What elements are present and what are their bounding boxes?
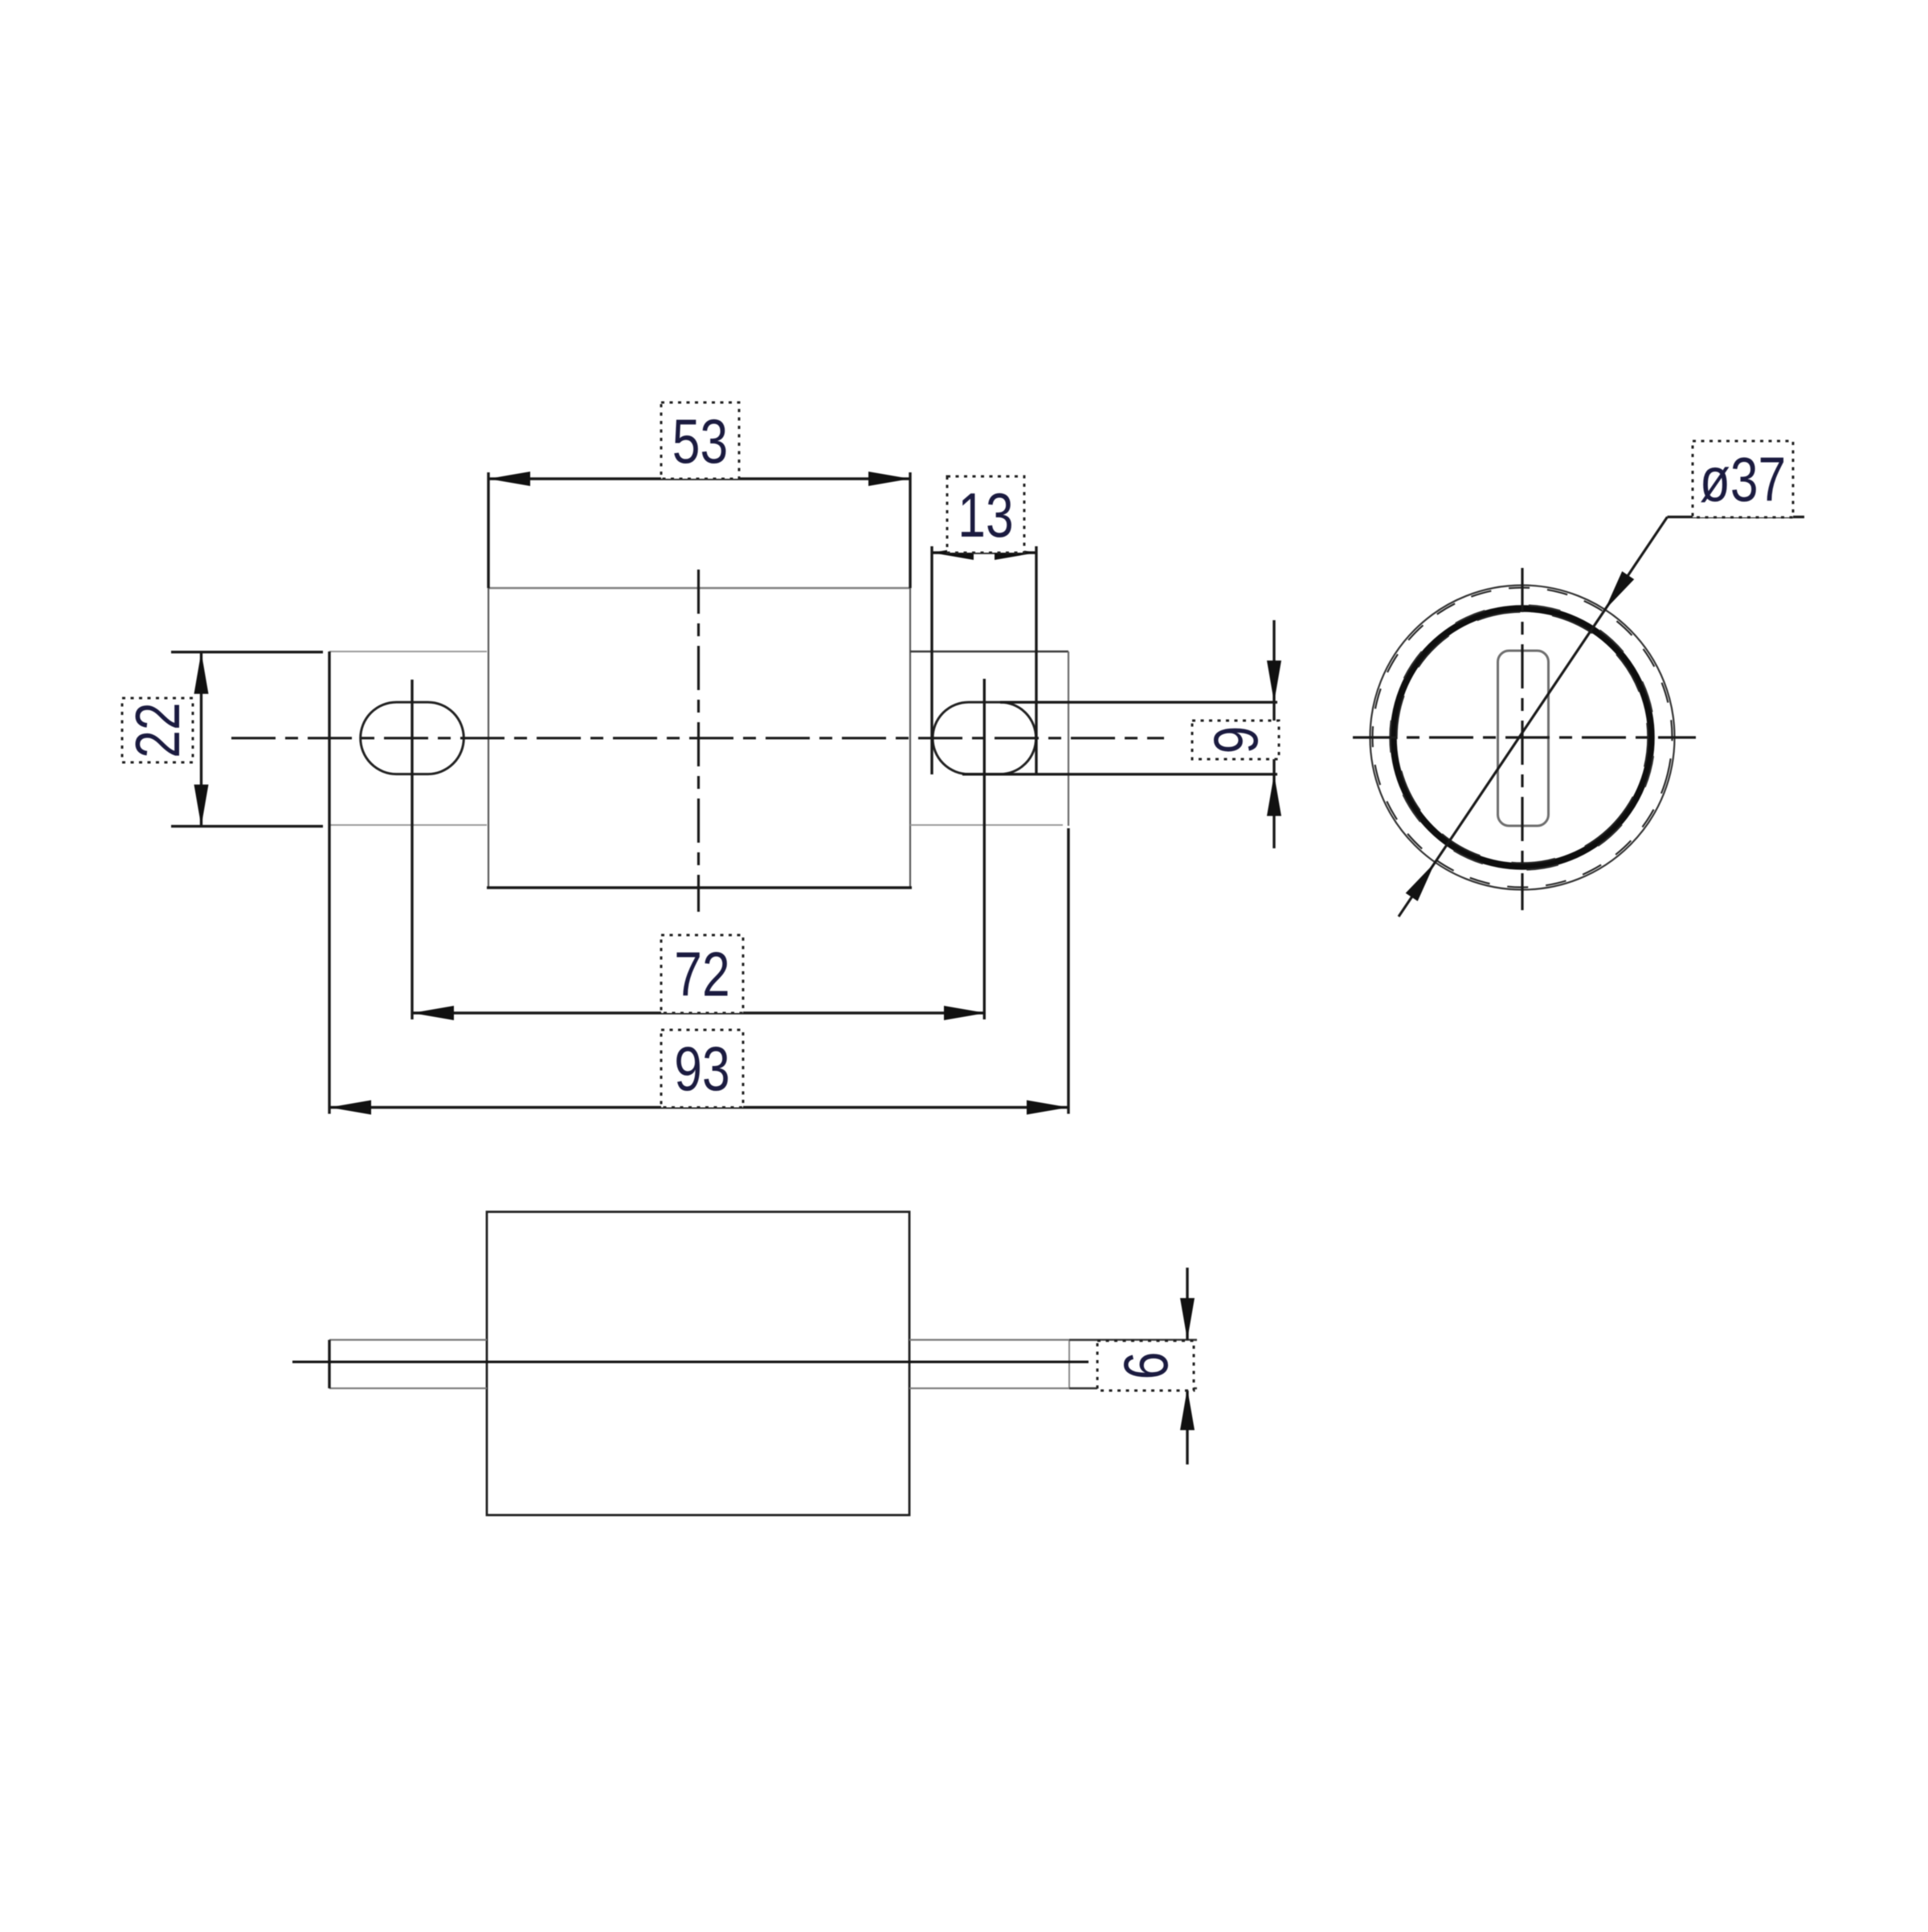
svg-text:13: 13: [958, 480, 1013, 549]
svg-text:6: 6: [1110, 1352, 1180, 1380]
svg-text:22: 22: [122, 702, 192, 758]
svg-text:72: 72: [674, 939, 729, 1009]
svg-text:93: 93: [674, 1033, 729, 1103]
svg-text:53: 53: [672, 406, 728, 476]
svg-text:9: 9: [1200, 726, 1270, 754]
svg-text:ø37: ø37: [1700, 444, 1787, 514]
